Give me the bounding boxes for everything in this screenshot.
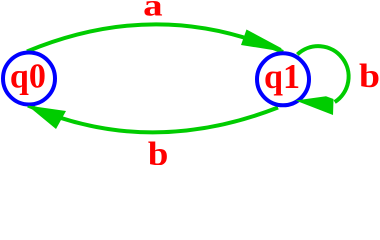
svg-text:q0: q0 bbox=[10, 57, 46, 96]
svg-text:b: b bbox=[148, 136, 169, 165]
svg-text:q1: q1 bbox=[264, 57, 300, 96]
svg-text:a: a bbox=[143, 0, 163, 23]
svg-text:b: b bbox=[359, 58, 380, 95]
